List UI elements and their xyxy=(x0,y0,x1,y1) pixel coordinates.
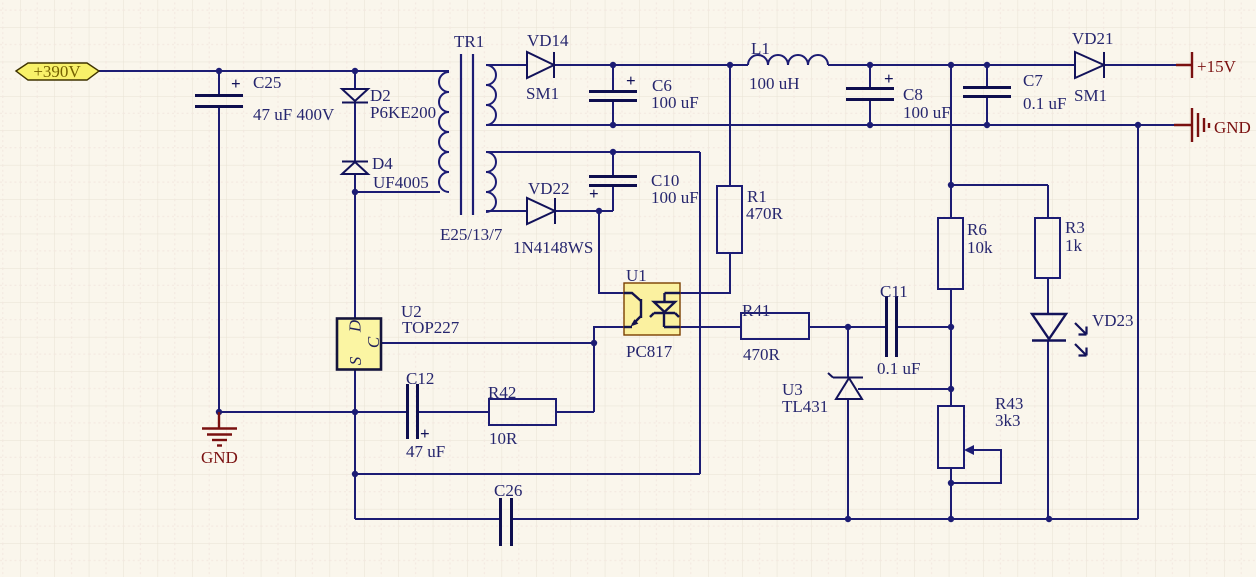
svg-text:R3: R3 xyxy=(1065,218,1085,237)
svg-text:47 uF 400V: 47 uF 400V xyxy=(253,105,335,124)
svg-text:100 uF: 100 uF xyxy=(903,103,951,122)
wire: VD21 cathode to +15V port xyxy=(1104,64,1176,66)
wire: +390V rail y=71 xyxy=(99,70,449,72)
wire: R41 to C11 to R6 node xyxy=(809,326,951,328)
svg-text:D4: D4 xyxy=(372,154,393,173)
svg-text:0.1 uF: 0.1 uF xyxy=(877,359,920,378)
svg-text:1N4148WS: 1N4148WS xyxy=(513,238,593,257)
resistor R6 xyxy=(938,218,963,289)
resistor R3 xyxy=(1035,218,1060,278)
resistor R42 xyxy=(489,399,556,425)
svg-text:S: S xyxy=(346,356,365,365)
svg-text:0.1 uF: 0.1 uF xyxy=(1023,94,1066,113)
svg-text:1k: 1k xyxy=(1065,236,1083,255)
svg-text:100 uF: 100 uF xyxy=(651,93,699,112)
opto U1 PC817 xyxy=(624,283,680,335)
wire: U3 cathode stem xyxy=(847,327,849,377)
diode D4 xyxy=(342,162,368,175)
diode VD21 xyxy=(1075,52,1104,78)
svg-text:D: D xyxy=(346,319,365,333)
power port +15V xyxy=(1176,52,1192,78)
wire: R6 bottom to R43 xyxy=(950,289,952,406)
svg-text:C11: C11 xyxy=(880,282,908,301)
svg-text:R42: R42 xyxy=(488,383,516,402)
svg-text:TL431: TL431 xyxy=(782,397,828,416)
wire: y=474 run xyxy=(355,473,700,475)
LED VD23 xyxy=(1032,314,1087,356)
svg-text:VD22: VD22 xyxy=(528,179,570,198)
wire: L1 to C8 to R6 to C7 to VD21 xyxy=(828,64,1075,66)
wire: secondary2 bottom to VD22 xyxy=(486,210,527,212)
wire: R1 stems x=730 xyxy=(680,65,730,293)
svg-text:R6: R6 xyxy=(967,220,987,239)
svg-text:C8: C8 xyxy=(903,85,923,104)
wire: drain node to primary bottom y=192 xyxy=(355,191,440,193)
svg-text:+: + xyxy=(626,71,636,90)
svg-text:GND: GND xyxy=(201,448,238,467)
diode D2 xyxy=(342,89,368,103)
wire: U1 collector riser x=599 xyxy=(599,211,624,293)
wire: C25 vertical x=219 xyxy=(218,71,220,412)
svg-text:100 uF: 100 uF xyxy=(651,188,699,207)
wire: R43 bottom stem xyxy=(950,468,952,519)
wire: U1 emitter down x=594 xyxy=(594,327,624,412)
svg-text:SM1: SM1 xyxy=(526,84,559,103)
inductor L1 xyxy=(748,55,828,65)
wire: U2 C pin to x=594 xyxy=(381,342,594,344)
wire: R43 wiper loop xyxy=(951,450,1001,483)
svg-text:C7: C7 xyxy=(1023,71,1043,90)
wire: y=412 run GND-C12-R42 xyxy=(219,411,594,413)
svg-text:TR1: TR1 xyxy=(454,32,484,51)
wire: R3 bottom to VD23 xyxy=(1047,278,1049,314)
wire: U3 ref to x=951 xyxy=(858,388,951,390)
potentiometer R43 xyxy=(938,406,974,468)
svg-text:3k3: 3k3 xyxy=(995,411,1021,430)
svg-text:TOP227: TOP227 xyxy=(402,318,460,337)
wire: secondary1 top to VD14 anode xyxy=(486,64,527,66)
ground (left earth) xyxy=(202,412,237,446)
capacitor C7 xyxy=(963,88,1011,97)
transistor xyxy=(624,293,641,301)
wire: VD23 to bottom rail xyxy=(1047,341,1049,520)
U2 TOP227 xyxy=(337,319,383,370)
svg-text:U1: U1 xyxy=(626,266,647,285)
wire: D2/D4 chain x=355 xyxy=(354,71,356,192)
svg-text:PC817: PC817 xyxy=(626,342,673,361)
wire: drain node down to U2 D pin xyxy=(354,192,356,318)
svg-text:+15V: +15V xyxy=(1197,57,1237,76)
svg-text:VD21: VD21 xyxy=(1072,29,1114,48)
core xyxy=(461,54,473,215)
svg-text:R41: R41 xyxy=(742,301,770,320)
power port +390V xyxy=(16,62,99,81)
wire: C8 stems xyxy=(869,65,871,125)
diode VD14 xyxy=(527,52,554,78)
wire: right riser x=1138 xyxy=(1137,125,1139,519)
svg-text:C25: C25 xyxy=(253,73,281,92)
svg-text:+: + xyxy=(231,74,241,93)
wire: R6 top stem x=951 xyxy=(950,65,952,218)
TL431 U3 xyxy=(828,373,863,399)
secondary winding 2 xyxy=(486,152,496,212)
svg-text:+: + xyxy=(420,424,430,443)
svg-text:47 uF: 47 uF xyxy=(406,442,445,461)
wire: U1 LED cathode to R41 xyxy=(680,326,741,328)
LED xyxy=(663,293,665,302)
capacitor C25 xyxy=(195,96,243,107)
secondary winding 1 xyxy=(486,65,496,125)
wire: R6/R3 link y=185 xyxy=(951,185,1048,218)
svg-text:VD23: VD23 xyxy=(1092,311,1134,330)
svg-text:470R: 470R xyxy=(743,345,781,364)
resistor R41 xyxy=(741,313,809,339)
svg-text:C26: C26 xyxy=(494,481,522,500)
svg-text:C: C xyxy=(364,336,383,348)
svg-text:+: + xyxy=(589,184,599,203)
capacitor C11 xyxy=(887,296,897,357)
wire: VD22 cathode to C10 bottom xyxy=(555,210,613,212)
capacitor C8 xyxy=(846,89,894,100)
svg-text:L1: L1 xyxy=(751,39,770,58)
svg-text:UF4005: UF4005 xyxy=(373,173,429,192)
svg-text:470R: 470R xyxy=(746,204,784,223)
wire: C10 stems xyxy=(612,152,614,211)
wire: VD14 cathode to C6 xyxy=(554,64,613,66)
wire: bottom rail y=519 xyxy=(355,518,1138,520)
capacitor C6 xyxy=(589,92,637,101)
wire: U2 S pin down x=355 xyxy=(354,370,356,519)
svg-text:10k: 10k xyxy=(967,238,993,257)
svg-text:10R: 10R xyxy=(489,429,518,448)
wire: C7 stems xyxy=(986,65,988,125)
svg-text:100 uH: 100 uH xyxy=(749,74,800,93)
wire: C6 to R1 node to L1 xyxy=(613,64,748,66)
capacitor C12 xyxy=(408,384,418,439)
wire: ground rail y=125 xyxy=(486,124,1174,126)
svg-text:VD14: VD14 xyxy=(527,31,569,50)
wire: C6 stems xyxy=(612,65,614,125)
svg-text:GND: GND xyxy=(1214,118,1251,137)
capacitor C10 xyxy=(589,177,637,186)
capacitor C26 xyxy=(501,498,512,546)
wire: U3 anode down xyxy=(847,399,849,519)
primary winding xyxy=(439,72,449,192)
svg-text:+: + xyxy=(884,69,894,88)
svg-text:SM1: SM1 xyxy=(1074,86,1107,105)
svg-text:P6KE200: P6KE200 xyxy=(370,103,436,122)
resistor R1 xyxy=(717,186,742,253)
svg-text:+390V: +390V xyxy=(33,62,81,81)
diode VD22 xyxy=(527,198,555,224)
power port GND (right) xyxy=(1174,108,1209,142)
svg-text:C12: C12 xyxy=(406,369,434,388)
transformer TR1 xyxy=(439,54,496,215)
svg-text:E25/13/7: E25/13/7 xyxy=(440,225,503,244)
wire: secondary2 top to corner x=700 xyxy=(486,152,700,474)
